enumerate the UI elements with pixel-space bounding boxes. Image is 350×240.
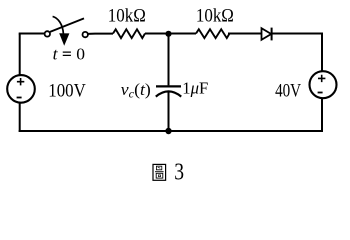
svg-text:10kΩ: 10kΩ — [196, 6, 234, 27]
resistor R1 10k — [113, 29, 145, 38]
wire: capacitor top lead — [168, 34, 170, 86]
wire: left vertical upper — [19, 34, 21, 75]
switch S1 (open, closes at t=0) — [45, 16, 88, 45]
source V1 100V — [7, 75, 35, 103]
wire: top-left segment — [19, 33, 45, 35]
diode D1 — [262, 28, 272, 41]
wire: right vertical upper — [321, 33, 323, 72]
wire: R2 to diode — [228, 33, 262, 35]
svg-text:1μF: 1μF — [182, 78, 208, 97]
svg-text:3: 3 — [174, 160, 184, 186]
node: top junction — [165, 31, 171, 37]
switch blade — [50, 18, 84, 32]
svg-text:40V: 40V — [275, 82, 302, 102]
switch closing arrow — [53, 16, 64, 33]
wire: bottom rail — [19, 130, 323, 132]
wire: capacitor bottom lead — [168, 92, 170, 131]
resistor R2 10k — [196, 29, 230, 38]
svg-text:10kΩ: 10kΩ — [108, 6, 146, 27]
wire: R1 to R2 — [145, 33, 196, 35]
wire: switch to R1 — [88, 33, 113, 35]
wire: right vertical lower — [321, 99, 323, 132]
wire: left vertical lower — [19, 103, 21, 132]
svg-text:vc(t): vc(t) — [121, 80, 151, 101]
node: bottom junction — [165, 128, 171, 134]
capacitor C1 top plate — [156, 85, 181, 87]
capacitor C1 curved plate — [156, 91, 181, 96]
caption: character Tu (figure) — [153, 164, 166, 180]
source V2 40V — [310, 71, 337, 98]
switch terminal right — [83, 32, 88, 37]
wire: diode to top-right corner — [272, 33, 323, 35]
svg-text:100V: 100V — [48, 82, 86, 102]
switch terminal left — [45, 31, 50, 36]
svg-text:t = 0: t = 0 — [53, 45, 86, 64]
